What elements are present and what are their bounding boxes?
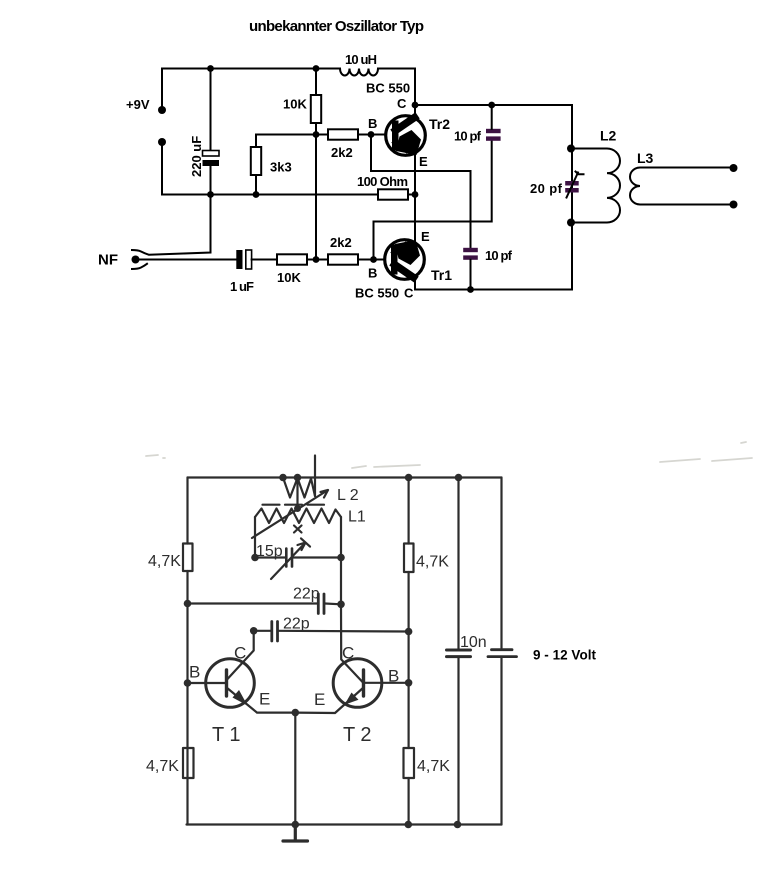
wire: T1 collector lead [228, 631, 254, 679]
transistor T2 circle [333, 659, 382, 708]
ground symbol [283, 825, 308, 842]
battery plate minus (long) [488, 655, 517, 658]
svg-text:220 uF: 220 uF [189, 136, 204, 177]
svg-text:L 2: L 2 [337, 487, 359, 504]
junction dot rail/center-tap [294, 474, 302, 482]
wire: 10pf upper to collector row [491, 105, 493, 129]
wire: vertical 10K node down to NF node [315, 135, 317, 260]
svg-text:+9V: +9V [126, 97, 150, 112]
battery plate plus (short) [492, 648, 513, 651]
svg-text:Tr2: Tr2 [429, 116, 450, 132]
junction dot top rail / 220uF [207, 65, 214, 72]
jack NF tip contact [132, 195, 211, 255]
wire: Tr1 base up and right to 10pf upper (cross-coupling) [374, 141, 492, 260]
junction dot rail/L2 left [279, 474, 287, 482]
node B of Tr2 [368, 131, 375, 138]
resistor R 4,7K upper-left [183, 544, 193, 572]
junction dot 15p left [251, 554, 259, 562]
wire: Tr2 emitter [414, 154, 416, 195]
wire: collector row to right rail [415, 104, 572, 106]
junction dot NF node [313, 256, 320, 263]
jack NF sleeve contact [132, 264, 147, 269]
wire: 15p node line [255, 556, 341, 558]
svg-text:2k2: 2k2 [331, 145, 353, 160]
arrow of variable inductor L2 [252, 490, 328, 538]
wire: battery column [500, 478, 502, 825]
capacitor C 220 uF plates [203, 151, 220, 167]
terminal dot L3 bottom [730, 201, 738, 209]
junction dot rail/right 4.7K [405, 474, 413, 482]
inductor L2 (coil) [571, 149, 620, 223]
+9V terminal lower [158, 138, 166, 146]
resistor R 100 Ohm [378, 189, 408, 199]
svg-text:L1: L1 [348, 509, 366, 526]
svg-text:B: B [189, 663, 200, 682]
wire: 22p upper line [188, 602, 342, 605]
transistor Tr1 BC550 (npn, mirrored) [385, 240, 425, 280]
svg-text:B: B [388, 667, 399, 686]
wire: top supply rail [188, 476, 502, 478]
svg-text:22p: 22p [293, 586, 320, 603]
svg-text:C: C [342, 644, 354, 663]
junction dot 15p right [337, 554, 345, 562]
wire: L1 right / T2 collector column upper [340, 517, 342, 604]
junction dot rail/10n [455, 474, 463, 482]
svg-text:4,7K: 4,7K [148, 553, 181, 570]
wire: Tr2 base to 10pf lower (cross-coupling) [371, 135, 471, 249]
junction dot B of T1 [184, 679, 192, 687]
junction dot center tap / L1 [294, 505, 301, 512]
wire: Tr1 base lead [374, 259, 386, 261]
resistor R 4,7K lower-left [183, 748, 194, 778]
svg-text:T 2: T 2 [343, 724, 372, 746]
svg-text:E: E [259, 690, 270, 709]
svg-text:10n: 10n [460, 634, 487, 651]
T1 emitter arrowhead [233, 690, 248, 706]
junction dot emitters [292, 709, 300, 717]
svg-text:B: B [368, 266, 377, 281]
svg-text:T 1: T 1 [212, 724, 241, 746]
svg-text:10K: 10K [277, 270, 301, 285]
T1 base lead [188, 682, 227, 684]
trimmer 15p arrow [271, 538, 310, 579]
svg-text:E: E [314, 690, 325, 709]
svg-text:4,7K: 4,7K [416, 554, 449, 571]
wire: 10pf lower to bottom rail [470, 260, 472, 290]
svg-text:10 pf: 10 pf [454, 129, 482, 144]
inductor L3 (coil) [630, 168, 733, 205]
wire: NF line to 1uF [139, 259, 237, 261]
svg-text:C: C [397, 96, 407, 111]
capacitor C 10 pf (lower) plates [463, 248, 478, 260]
resistor R 4,7K upper-right [404, 544, 414, 573]
svg-text:unbekannter Oszillator Typ: unbekannter Oszillator Typ [249, 18, 424, 35]
wire: Tr1 emitter up to 100 Ohm node [414, 195, 416, 242]
wire: center tap [296, 478, 298, 509]
capacitor C 10n plates [447, 650, 471, 657]
junction dot Tr2 collector node [412, 102, 419, 109]
junction dot L2 bottom [567, 219, 575, 227]
T2 base bar [362, 670, 365, 696]
junction dot bottom rail / right 4.7K [405, 821, 413, 829]
trimmer 20 pf arrow [567, 172, 584, 198]
inductor L 10 uH [340, 69, 378, 76]
svg-text:Tr1: Tr1 [431, 267, 452, 283]
T1 base bar [225, 670, 228, 696]
trimmer capacitor 15p plates [286, 549, 292, 567]
wire: 22p lower line [254, 630, 409, 633]
resistor R 10K (lower, horizontal) [252, 254, 316, 264]
wire: bottom rail [187, 823, 502, 825]
T2 emitter lead with arrow [295, 688, 363, 714]
resistor R 10K (upper, vertical) [311, 69, 321, 135]
svg-text:10 pf: 10 pf [485, 248, 513, 263]
junction dot left rail / 22p upper [184, 600, 192, 608]
capacitor C 22p upper plates [318, 594, 324, 614]
resistor R 4,7K lower-right [404, 748, 415, 778]
wire: right rail 4.7K column [408, 478, 410, 825]
svg-text:15p: 15p [256, 543, 283, 560]
wire: Tr2 base lead [371, 134, 385, 136]
capacitor C 1 uF plates [236, 250, 251, 269]
T2 emitter arrowhead [345, 693, 359, 705]
svg-text:NF: NF [98, 252, 118, 269]
svg-text:C: C [404, 286, 414, 301]
junction dot T1 collector / 22p lower [250, 627, 258, 635]
inductor L1 zigzag [255, 509, 341, 524]
svg-text:100 Ohm: 100 Ohm [357, 174, 408, 189]
transistor T1 circle [206, 659, 255, 708]
jack NF center terminal [132, 256, 140, 264]
junction dot bottom rail / 10pf lower [467, 286, 474, 293]
junction dot rail / 3k3 bottom [253, 191, 260, 198]
trimmer capacitor 20 pf plates [565, 181, 579, 193]
svg-text:L3: L3 [637, 150, 654, 166]
scan smudge marks (faint) [146, 442, 752, 468]
wire: L1 left to T1 collector column [254, 517, 256, 558]
wire: Tr1 collector to bottom rail [415, 278, 572, 290]
capacitor C 220 uF lead bottom [210, 166, 212, 195]
terminal dot L3 top [730, 164, 738, 172]
junction dot 10pf top [488, 102, 495, 109]
svg-text:4,7K: 4,7K [146, 758, 179, 775]
wire: +9V top rail [162, 69, 415, 111]
resistor R 2k2 (lower, horizontal) [316, 254, 374, 264]
svg-text:10K: 10K [283, 97, 307, 112]
junction dot 22p lower / right rail [405, 628, 413, 636]
svg-text:9 - 12 Volt: 9 - 12 Volt [533, 648, 597, 663]
T1 emitter lead with arrow [227, 688, 296, 713]
capacitor C 22p lower plates [272, 622, 278, 642]
svg-text:1 uF: 1 uF [230, 279, 254, 294]
wire: Tr2 collector [414, 69, 416, 118]
junction dot bottom rail / 10n [454, 821, 462, 829]
svg-text:10 uH: 10 uH [345, 52, 377, 67]
junction dot 22p upper right [337, 601, 345, 609]
inductor L2 zigzag (variable) [283, 478, 315, 498]
TOP CIRCUIT [98, 18, 738, 301]
core dashed line (coupling) [263, 504, 325, 506]
svg-text:20 pf: 20 pf [530, 181, 563, 196]
capacitor C 10 pf (upper) plates [486, 129, 501, 141]
resistor R 3k3 (vertical) [251, 147, 261, 175]
wire: 3k3 branch [256, 135, 316, 195]
junction dot 10K/2k2/3k3 node [313, 131, 320, 138]
svg-text:3k3: 3k3 [270, 160, 292, 175]
junction dot rail / 220uF bottom [207, 191, 214, 198]
capacitor C 220 uF lead top [210, 69, 212, 152]
svg-text:BC 550: BC 550 [366, 81, 410, 96]
junction dot top rail / 10K [313, 65, 320, 72]
svg-text:B: B [368, 116, 377, 131]
junction dot bottom rail / emitter [292, 821, 300, 829]
svg-text:L2: L2 [600, 128, 617, 144]
svg-text:2k2: 2k2 [330, 235, 352, 250]
wire: right rail [571, 105, 573, 290]
wire: emitter down to ground rail [294, 713, 296, 825]
X mark on L1 arrow [294, 526, 302, 533]
wire: left rail [186, 478, 188, 825]
junction dot Tr2 emitter / 100 Ohm [412, 191, 419, 198]
wire: antenna stub [314, 456, 316, 497]
svg-text:BC 550: BC 550 [355, 286, 399, 301]
node B of Tr1 [370, 256, 377, 263]
svg-text:4,7K: 4,7K [417, 758, 450, 775]
junction dot L2 top [567, 145, 575, 153]
wire: 10n column [457, 478, 459, 825]
T2 base lead [364, 682, 409, 684]
transistor Tr2 BC550 (npn) [386, 116, 426, 156]
junction dot B of T2 [405, 679, 413, 687]
+9V terminal upper [158, 106, 166, 114]
resistor R 2k2 (upper, horizontal) [316, 129, 371, 139]
wire: T2 collector lead [341, 604, 363, 682]
svg-text:22p: 22p [283, 616, 310, 633]
svg-text:E: E [421, 229, 430, 244]
wire: lower ground rail [162, 142, 415, 195]
svg-text:E: E [419, 154, 428, 169]
BOTTOM CIRCUIT [146, 442, 752, 841]
